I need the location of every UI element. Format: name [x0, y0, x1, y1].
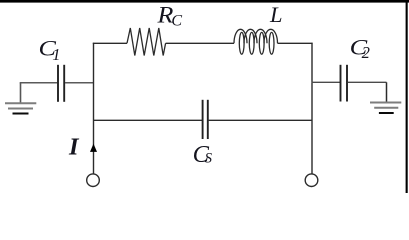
wire top branch left [93, 42, 127, 44]
label C1 [39, 36, 57, 61]
right border [406, 0, 408, 193]
wire C1 to left bus [65, 82, 94, 84]
current arrow I [90, 144, 97, 152]
svg-text:2: 2 [362, 43, 370, 62]
top border [0, 0, 409, 3]
capacitor C2 [341, 65, 348, 102]
ground (right) [370, 82, 401, 113]
wire left bus [93, 43, 95, 174]
wire right bus [311, 43, 313, 174]
terminal (left) [87, 174, 100, 187]
wire bottom branch left [94, 119, 203, 121]
inductor L [234, 29, 278, 54]
capacitor CS [203, 100, 208, 139]
label C2 [350, 35, 368, 60]
ground (left) [5, 83, 36, 114]
wire inductor to right bus [278, 42, 313, 44]
label RC [156, 3, 173, 28]
wire right bus to C2 [312, 81, 341, 83]
wire ground to C1 [20, 82, 58, 84]
svg-text:C: C [171, 12, 182, 29]
svg-text:S: S [205, 151, 213, 167]
svg-text:I: I [68, 134, 80, 161]
wire bottom branch right [208, 119, 312, 121]
terminal (right) [305, 174, 318, 187]
resistor RC [127, 28, 166, 56]
wire resistor to inductor [166, 42, 234, 44]
wire C2 to right ground [348, 81, 387, 83]
capacitor C1 [58, 65, 64, 102]
svg-text:L: L [269, 2, 283, 27]
svg-text:1: 1 [52, 45, 60, 64]
